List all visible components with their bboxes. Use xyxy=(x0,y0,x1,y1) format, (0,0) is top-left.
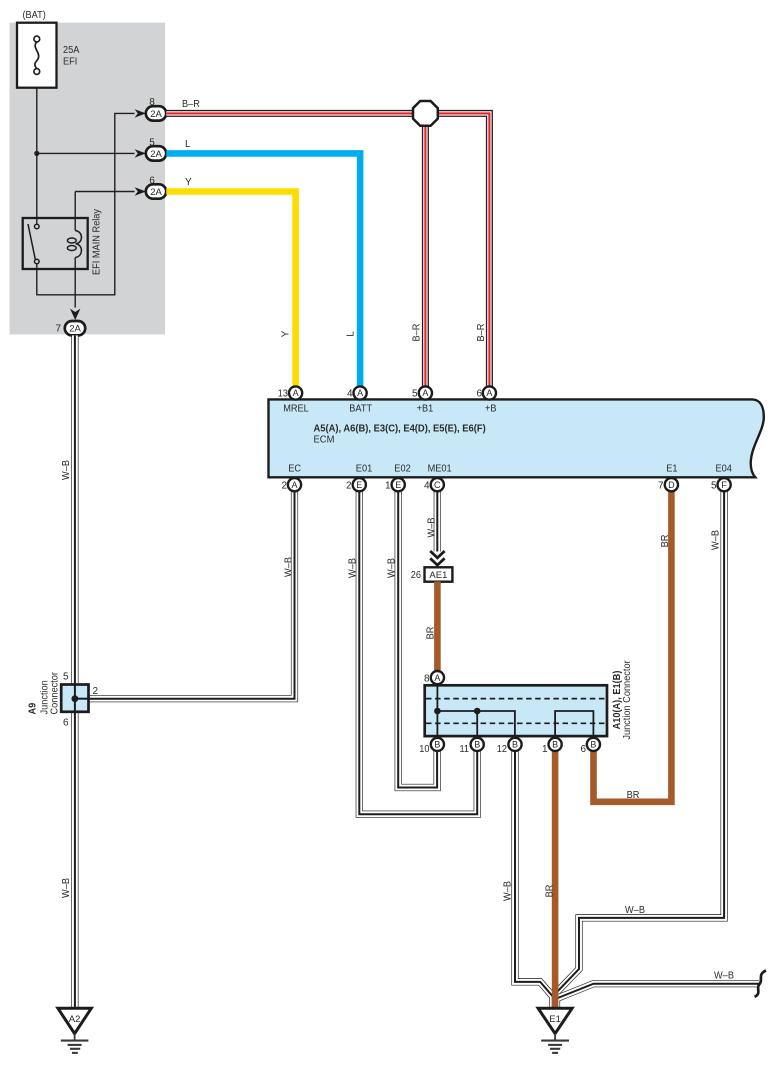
svg-text:W–B: W–B xyxy=(711,530,722,550)
junction A10 pin 8 xyxy=(431,671,444,684)
svg-text:BATT: BATT xyxy=(349,404,372,415)
svg-text:5: 5 xyxy=(711,481,717,492)
svg-text:(BAT): (BAT) xyxy=(23,10,46,21)
junction dots A10 xyxy=(434,708,441,715)
svg-text:1: 1 xyxy=(542,744,548,755)
svg-text:4: 4 xyxy=(424,481,430,492)
wire relay coil to connector 2A pin 7 xyxy=(74,258,76,308)
relay block shading xyxy=(10,23,166,335)
wire W-B ECM EC to junction connector A9 pin 2 xyxy=(89,491,294,698)
ECM pin 5 E04 xyxy=(718,478,731,491)
wire fuse to relay contact xyxy=(36,88,38,224)
wire W-B from off-page to ground E1 xyxy=(557,984,760,1009)
wire BR ECM E1 to junction A10 pin 6 xyxy=(594,491,672,802)
svg-text:2: 2 xyxy=(93,686,99,697)
svg-text:Junction Connector: Junction Connector xyxy=(622,660,633,740)
dashed rows in junction A10 xyxy=(426,699,606,724)
svg-text:13: 13 xyxy=(278,389,289,400)
svg-text:A: A xyxy=(293,388,299,398)
svg-text:L: L xyxy=(185,139,191,150)
svg-text:W–B: W–B xyxy=(61,460,72,480)
wire BR junction A10 pin 1 to ground E1 xyxy=(552,748,559,1009)
ECM pin 6 +B xyxy=(483,386,496,399)
svg-text:6: 6 xyxy=(476,389,482,400)
svg-text:6: 6 xyxy=(63,718,69,729)
wire L connector 2A pin 5 to ECM BATT xyxy=(166,153,360,386)
wire W-B ECM E01 to junction A10 pin 11 xyxy=(359,491,477,814)
svg-text:11: 11 xyxy=(460,744,470,755)
junction connector A10(A), E1(B) xyxy=(425,685,607,736)
wire to connector 2A pin 5 xyxy=(37,152,135,154)
svg-text:AE1: AE1 xyxy=(429,570,447,581)
svg-text:EFI MAIN Relay: EFI MAIN Relay xyxy=(92,209,103,275)
junction connector A9 xyxy=(61,685,88,712)
svg-text:2: 2 xyxy=(281,481,287,492)
connector 2A pin 7 xyxy=(70,309,80,320)
svg-text:5: 5 xyxy=(149,138,155,149)
ECM xyxy=(269,399,764,477)
svg-text:A: A xyxy=(486,388,492,398)
break symbol xyxy=(755,971,767,997)
svg-text:W–B: W–B xyxy=(284,557,295,577)
svg-text:EFI: EFI xyxy=(63,57,77,68)
svg-text:2A: 2A xyxy=(69,324,81,335)
junction A10 pin 12 xyxy=(508,738,521,751)
svg-text:E: E xyxy=(395,480,401,490)
svg-text:6: 6 xyxy=(580,744,586,755)
svg-text:25A: 25A xyxy=(63,45,80,56)
ECM pin 1 E02 xyxy=(392,478,405,491)
svg-text:12: 12 xyxy=(497,744,508,755)
junction A10 pin 6 xyxy=(587,738,600,751)
relay EFI MAIN Relay xyxy=(23,218,88,269)
fuse 25A EFI xyxy=(17,23,57,88)
junction dot battery feed xyxy=(34,151,39,156)
chevron arrows into AE1 xyxy=(430,551,444,565)
svg-text:BR: BR xyxy=(545,885,556,898)
svg-text:Y: Y xyxy=(185,177,192,188)
connector 2A pin 8 xyxy=(135,109,146,117)
wire BR AE1 to junction A10 pin 8 xyxy=(434,582,441,672)
svg-text:W–B: W–B xyxy=(714,971,734,982)
svg-text:A9: A9 xyxy=(28,702,39,714)
ECM pin 2 E01 xyxy=(353,478,366,491)
svg-text:+B: +B xyxy=(485,404,497,415)
wire B-R connector 2A pin 8 to splice xyxy=(166,110,414,117)
svg-text:L: L xyxy=(346,331,357,337)
svg-text:E04: E04 xyxy=(716,464,733,475)
svg-text:W–B: W–B xyxy=(625,905,645,916)
svg-text:Connector: Connector xyxy=(50,671,61,714)
svg-text:C: C xyxy=(434,480,441,490)
bus wires inside junction A10 xyxy=(437,683,593,738)
ECM pin 7 E1 xyxy=(665,478,678,491)
svg-text:A2: A2 xyxy=(69,1014,81,1025)
svg-text:D: D xyxy=(668,480,675,490)
connector AE1 pin 26 xyxy=(425,567,453,581)
wire relay coil to connector 2A pin 6 xyxy=(75,191,134,193)
wire W-B junction A10 pin 12 to ground E1 xyxy=(515,748,553,1009)
svg-text:F: F xyxy=(721,480,727,490)
connector 2A pin 6 xyxy=(135,187,146,195)
svg-text:W–B: W–B xyxy=(348,558,359,578)
svg-text:8: 8 xyxy=(149,97,155,108)
svg-text:2: 2 xyxy=(346,481,352,492)
svg-text:BR: BR xyxy=(627,790,640,801)
ECM pin 13 MREL xyxy=(289,386,302,399)
svg-text:A: A xyxy=(422,388,428,398)
svg-text:Y: Y xyxy=(281,330,292,337)
svg-text:10: 10 xyxy=(419,744,430,755)
wire W-B ECM ME01 to connector AE1 xyxy=(434,491,441,551)
ground E1 xyxy=(538,1008,572,1053)
svg-text:7: 7 xyxy=(658,481,664,492)
ECM pin 5 +B1 xyxy=(419,386,432,399)
svg-text:B: B xyxy=(434,740,440,750)
svg-text:2A: 2A xyxy=(150,149,162,160)
svg-text:B: B xyxy=(552,740,558,750)
junction A10 pin 1 xyxy=(549,738,562,751)
svg-text:MREL: MREL xyxy=(283,404,309,415)
wire W-B ECM E04 to ground E1 xyxy=(555,491,725,1009)
svg-text:E02: E02 xyxy=(394,464,411,475)
svg-text:E01: E01 xyxy=(356,464,373,475)
svg-text:B–R: B–R xyxy=(476,324,487,342)
wire down to relay coil xyxy=(74,192,76,231)
svg-text:26: 26 xyxy=(411,570,422,581)
svg-text:B–R: B–R xyxy=(182,99,200,110)
wire Y connector 2A pin 6 to ECM MREL xyxy=(166,192,295,387)
svg-text:5: 5 xyxy=(412,389,418,400)
svg-text:B: B xyxy=(474,740,480,750)
splice node octagon xyxy=(413,101,438,126)
svg-text:6: 6 xyxy=(149,176,155,187)
ECM pin 2 EC xyxy=(288,478,301,491)
svg-text:2A: 2A xyxy=(150,109,162,120)
svg-text:W–B: W–B xyxy=(427,517,438,537)
svg-text:B: B xyxy=(590,740,596,750)
ground A2 xyxy=(58,1008,91,1053)
svg-text:E1: E1 xyxy=(549,1014,561,1025)
wire W-B ECM E02 to junction A10 pin 10 xyxy=(398,491,437,787)
svg-text:ECM: ECM xyxy=(314,434,335,445)
svg-text:ME01: ME01 xyxy=(428,464,452,475)
svg-text:W–B: W–B xyxy=(503,881,514,901)
svg-text:W–B: W–B xyxy=(61,878,72,898)
svg-text:B–R: B–R xyxy=(412,324,423,342)
svg-text:7: 7 xyxy=(55,324,61,335)
svg-text:A: A xyxy=(357,388,363,398)
connector 2A pin 5 xyxy=(135,149,146,157)
svg-text:A: A xyxy=(291,480,297,490)
svg-text:W–B: W–B xyxy=(387,558,398,578)
svg-text:EC: EC xyxy=(288,464,301,475)
wire B-R splice to ECM +B1 xyxy=(422,124,429,387)
svg-text:4: 4 xyxy=(347,389,353,400)
svg-text:5: 5 xyxy=(63,672,69,683)
wire W-B connector 2A pin 7 to ground A2 via junction A9 xyxy=(71,335,78,1007)
svg-text:BR: BR xyxy=(426,627,437,640)
svg-text:8: 8 xyxy=(424,674,430,685)
junction A10 pin 11 xyxy=(471,738,484,751)
svg-text:E1: E1 xyxy=(666,464,678,475)
wire relay contact to connector 2A pin 8 xyxy=(37,113,135,294)
ECM pin 4 BATT xyxy=(354,386,367,399)
svg-text:B: B xyxy=(512,740,518,750)
svg-text:1: 1 xyxy=(385,481,391,492)
svg-text:+B1: +B1 xyxy=(417,404,434,415)
svg-text:E: E xyxy=(356,480,362,490)
svg-text:A5(A), A6(B), E3(C), E4(D), E5: A5(A), A6(B), E3(C), E4(D), E5(E), E6(F) xyxy=(314,423,486,434)
svg-text:A: A xyxy=(434,673,440,683)
junction A10 pin 10 xyxy=(431,738,444,751)
svg-text:BR: BR xyxy=(660,535,671,548)
wire B-R splice to ECM +B xyxy=(436,113,489,386)
svg-text:2A: 2A xyxy=(150,187,162,198)
ECM pin 4 ME01 xyxy=(431,478,444,491)
